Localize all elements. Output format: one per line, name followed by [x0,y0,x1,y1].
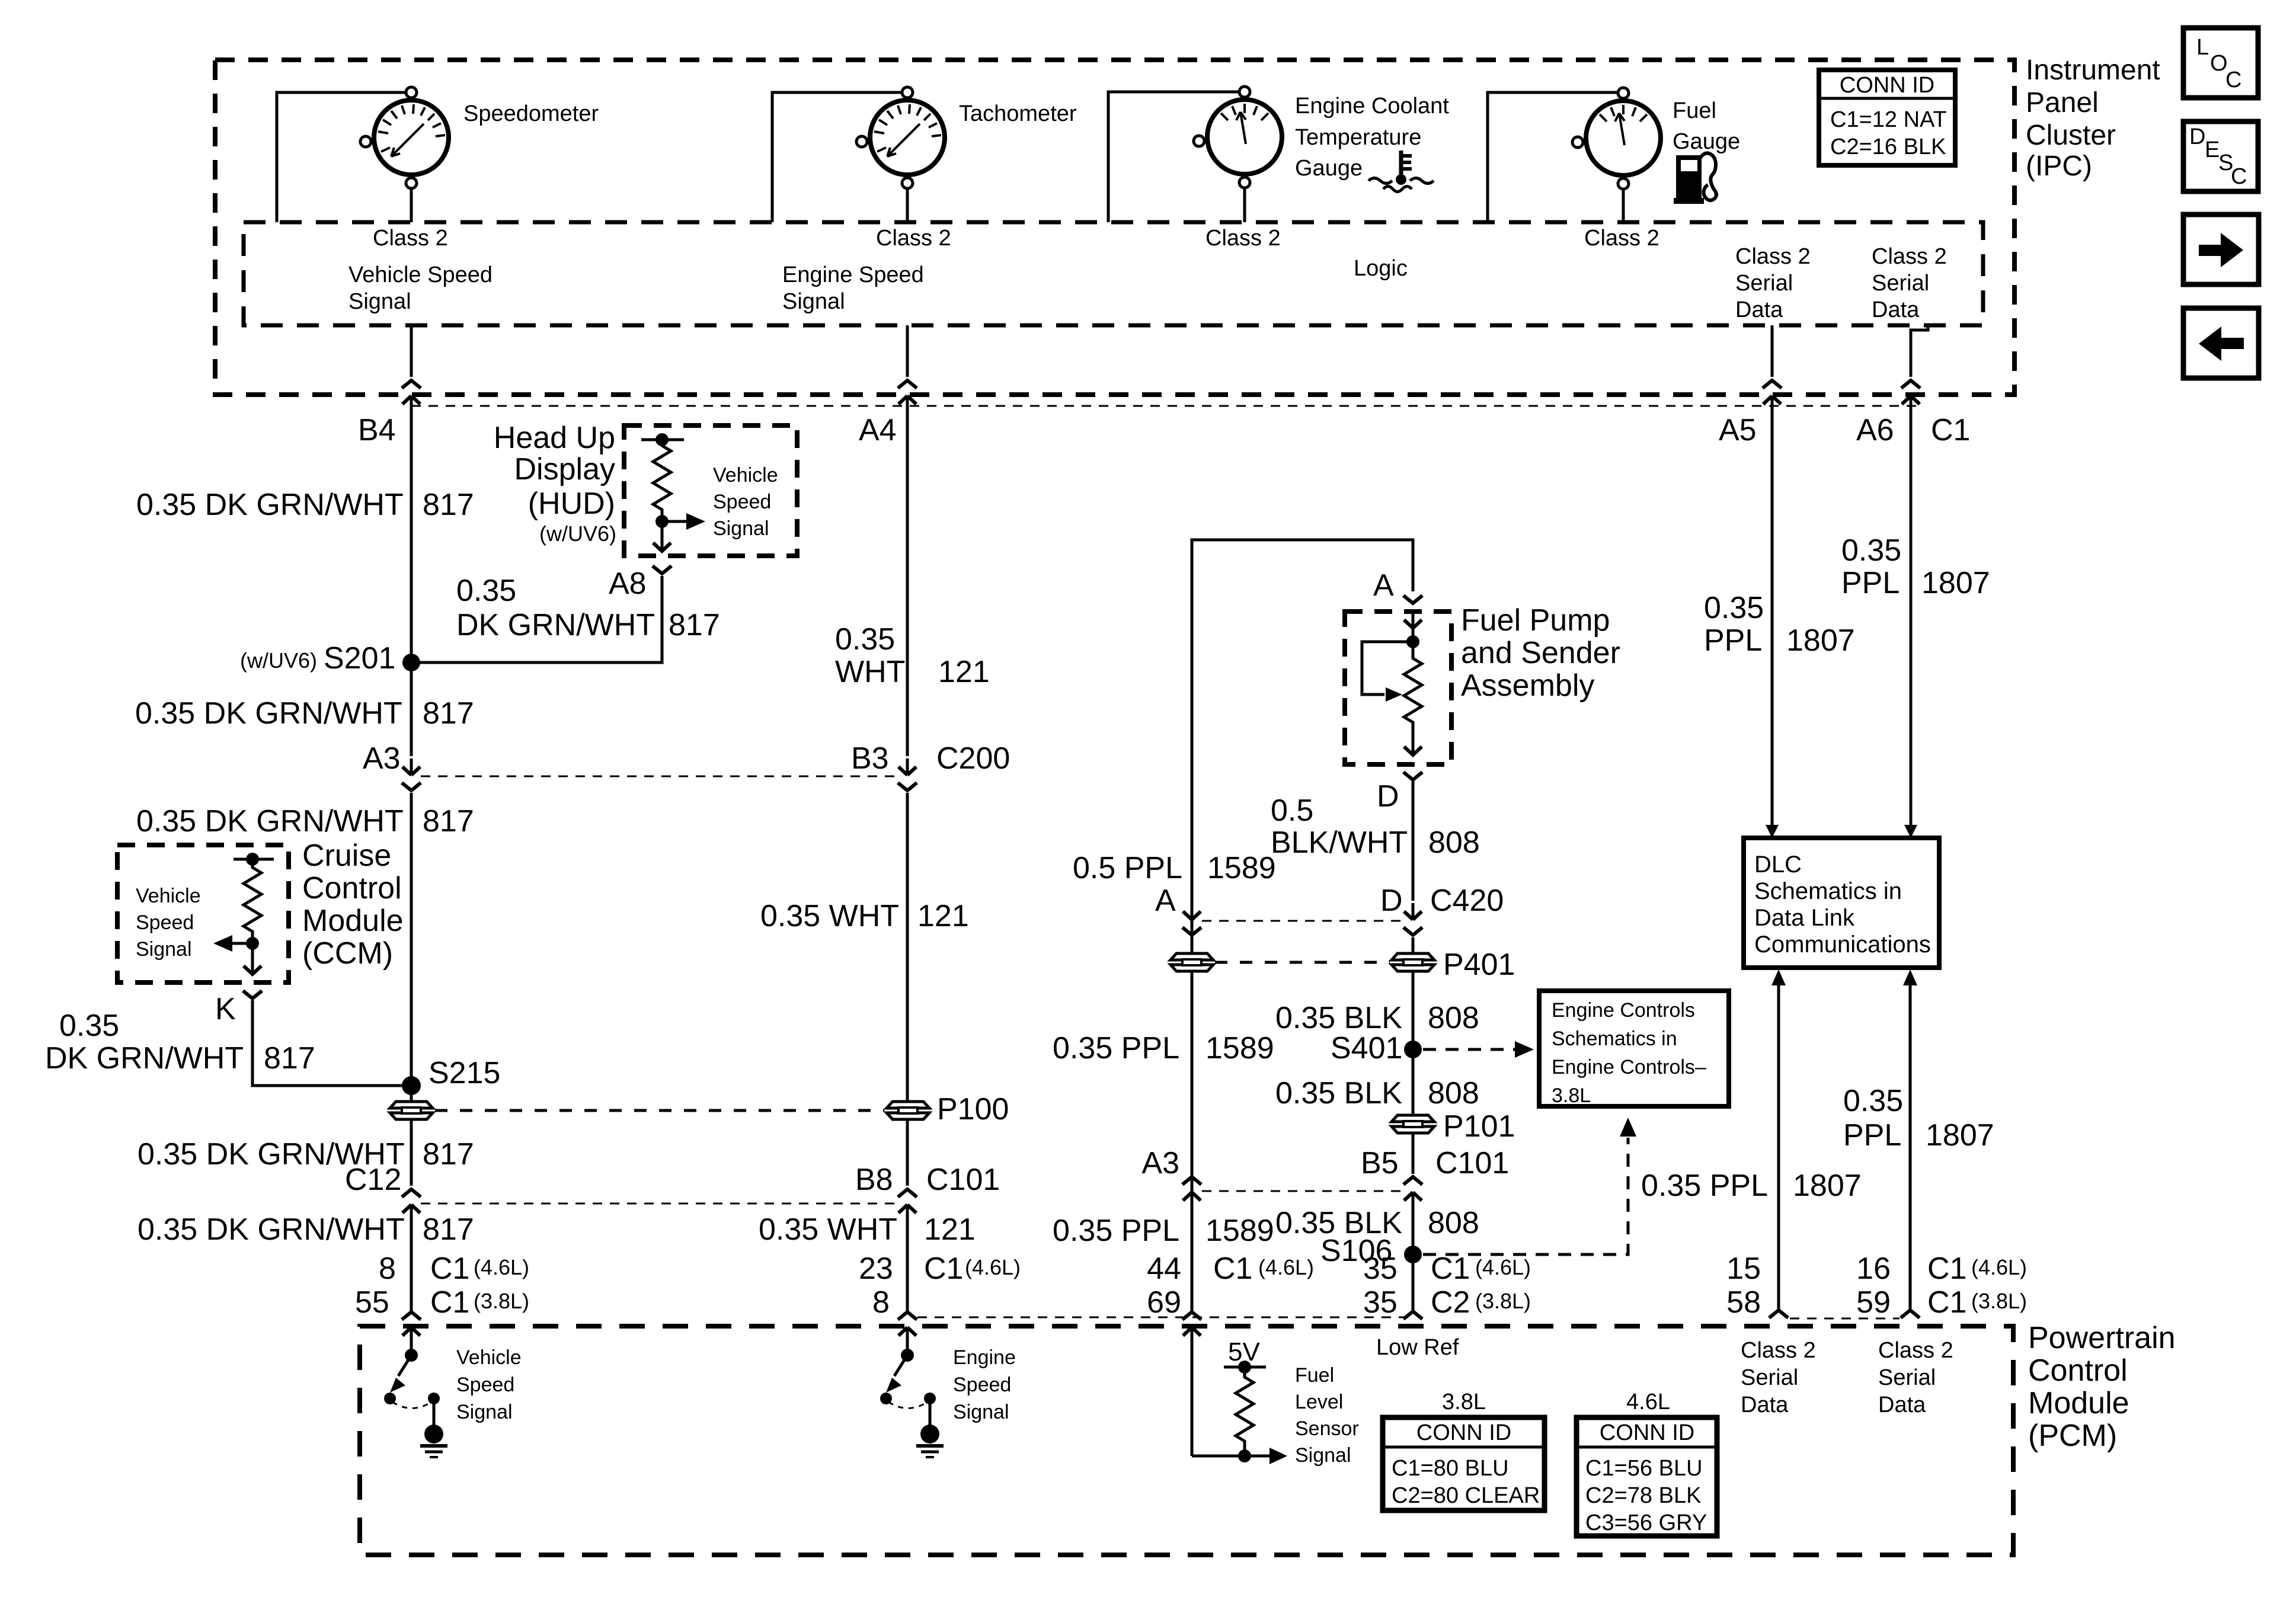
svg-text:Panel: Panel [2026,87,2099,119]
connector crossing D/C420 [1403,903,1422,935]
svg-text:Engine Speed: Engine Speed [782,263,924,287]
svg-text:44: 44 [1147,1251,1181,1286]
svg-text:B3: B3 [851,741,889,776]
wire label 0.5 PPL 1589 [1073,851,1276,885]
svg-text:1807: 1807 [1793,1169,1862,1203]
engine speed signal label (IPC) [782,263,924,314]
ground (engine speed switch) [916,1402,944,1457]
svg-text:Cruise: Cruise [302,838,391,873]
svg-text:(3.8L): (3.8L) [474,1289,529,1313]
svg-text:Signal: Signal [136,938,192,961]
svg-text:Low Ref: Low Ref [1376,1335,1459,1360]
connector crossing A3/C200 [402,758,421,790]
pin label K [215,992,236,1026]
svg-text:Signal: Signal [456,1401,513,1423]
svg-text:Speed: Speed [136,911,194,934]
connector C1 thin dashed line below IPC [411,405,1920,407]
svg-text:Module: Module [2028,1386,2129,1420]
wire 1589 from C101 to PCM [1191,1209,1194,1311]
svg-text:Signal: Signal [782,289,845,314]
HUD output arrow right [662,513,705,530]
svg-text:C3=56 GRY: C3=56 GRY [1585,1510,1707,1535]
wire from CCM pin K to S215 [252,1000,406,1086]
chevron at CCM pin K [243,991,262,998]
wire 808 from fuel pump to C420 [1412,781,1415,901]
HUD dashed box [624,425,797,556]
svg-text:A8: A8 [609,566,647,601]
svg-text:4.6L: 4.6L [1626,1390,1670,1414]
dashed arrow S401 to engine controls box [1423,1041,1534,1058]
splice S401 [1404,1041,1422,1058]
svg-text:817: 817 [264,1041,315,1076]
pin label A3 [363,741,401,776]
wire label 0.35 WHT 121 (bottom) [759,1212,976,1247]
HUD resistor [653,442,671,523]
svg-text:808: 808 [1428,1206,1479,1240]
connector C101 thin dashed line (left pair) [421,1203,898,1205]
svg-text:Engine Controls: Engine Controls [1552,999,1695,1022]
svg-text:Data: Data [1735,297,1783,322]
wire 121 from C200 to P100 [906,793,909,1102]
svg-text:16: 16 [1856,1251,1891,1286]
wire B4 from logic box to IPC edge [410,325,413,377]
svg-text:Speed: Speed [953,1374,1011,1396]
svg-text:Fuel: Fuel [1673,98,1716,123]
svg-text:Class 2: Class 2 [1878,1338,1953,1363]
svg-text:Engine: Engine [953,1346,1016,1369]
svg-text:Serial: Serial [1735,271,1793,296]
wire 121 from IPC to C200 [906,396,909,756]
wire from C420 to P401 (left) [1191,937,1194,953]
svg-text:23: 23 [859,1251,893,1286]
svg-text:D: D [1380,884,1403,918]
splice label S401 [1331,1031,1402,1065]
CONN ID box IPC [1819,70,1955,165]
svg-text:CONN ID: CONN ID [1416,1420,1511,1445]
HUD internal node dot bottom [655,515,669,528]
svg-text:8: 8 [872,1285,890,1320]
connector crossing A4 at IPC edge [898,380,917,412]
chevron at fuel pump pin A [1403,596,1422,603]
wire 817 from C200 to S215 [410,793,413,1102]
PCM connector thin dashed line (DLC pair) [1790,1318,1900,1320]
svg-text:Serial: Serial [1872,271,1929,296]
class 2 serial data label A5 [1735,244,1811,322]
svg-text:Signal: Signal [713,517,769,540]
wire coolant gauge bottom terminal to logic box [1243,187,1246,222]
svg-text:Vehicle Speed: Vehicle Speed [348,263,493,287]
CCM internal node dot top [246,853,259,866]
svg-text:C1: C1 [1927,1251,1966,1286]
wire tachometer bottom terminal to logic box [906,188,909,222]
svg-text:DK GRN/WHT: DK GRN/WHT [45,1041,244,1076]
svg-text:A3: A3 [1141,1146,1179,1180]
wire label 0.35 DK GRN/WHT 817 (HUD branch) [456,574,720,642]
wire 808 from C101 to S106 [1412,1209,1415,1311]
engine controls schematics box [1539,991,1729,1107]
svg-text:Vehicle: Vehicle [456,1346,522,1369]
pin labels B3 C200 [851,741,1010,776]
svg-text:C1=80 BLU: C1=80 BLU [1392,1456,1509,1481]
connector C101 thin dashed line (fuel pair) [1202,1190,1403,1192]
pin row 15 / 58 [1726,1251,1761,1320]
chevron at PCM (DLC right) [1901,1310,1920,1318]
svg-text:(PCM): (PCM) [2028,1419,2117,1453]
svg-text:(3.8L): (3.8L) [1475,1289,1531,1313]
svg-text:C200: C200 [936,741,1010,776]
fuel sender node dot [1406,635,1419,648]
IPC label [2026,55,2160,182]
engine coolant temperature gauge [1194,87,1282,188]
engine speed switch contacts [880,1393,936,1409]
logic label [1354,256,1408,281]
svg-text:Temperature: Temperature [1295,125,1421,150]
svg-text:0.35: 0.35 [456,574,516,608]
svg-text:DK GRN/WHT: DK GRN/WHT [456,608,655,642]
fuel level sensor resistor [1236,1367,1253,1457]
svg-text:Speed: Speed [456,1374,514,1396]
svg-text:D: D [1377,779,1399,814]
inline connector P100 (speedometer wire) [390,1102,433,1119]
svg-text:35: 35 [1363,1251,1398,1286]
svg-text:A4: A4 [859,413,897,447]
connector crossing A3/C101 [1182,1177,1201,1209]
svg-text:S215: S215 [428,1056,500,1090]
svg-text:K: K [215,992,236,1026]
CCM internal top bar [234,858,274,861]
fuel sender wiper arm [1362,642,1413,702]
connector crossing A5 at IPC edge [1763,380,1782,412]
wire fuel gauge bottom terminal to logic box [1622,188,1625,222]
CCM vehicle speed signal label [136,885,201,961]
wire speedometer bottom terminal to logic box [410,188,413,222]
svg-text:3.8L: 3.8L [1442,1390,1486,1414]
svg-text:PPL: PPL [1841,566,1900,600]
pin labels A3 B5 C101 [1141,1146,1509,1180]
svg-text:1589: 1589 [1205,1031,1274,1065]
svg-text:P101: P101 [1443,1109,1515,1144]
vehicle speed signal label (PCM) [456,1346,522,1423]
chevron at fuel pump pin D [1403,772,1422,780]
svg-text:Head Up: Head Up [494,421,615,455]
svg-text:L: L [2196,35,2209,60]
wire label 0.35 BLK 808 (above S401) [1275,1001,1479,1035]
ground (vehicle speed switch) [420,1402,447,1457]
wire top loop fuel sender [1192,540,1413,1311]
connector crossing at PCM (speedo) [402,1312,421,1344]
wire label 0.35 WHT 121 (middle) [760,899,969,933]
wire label 0.5 BLK/WHT 808 [1271,793,1480,860]
pin labels A6 C1 [1856,413,1970,447]
svg-text:Vehicle: Vehicle [713,464,778,486]
svg-text:C1: C1 [1931,413,1970,447]
chevron at PCM (low ref) [1403,1311,1422,1319]
svg-text:C101: C101 [926,1163,1000,1197]
svg-text:Engine Coolant: Engine Coolant [1295,94,1449,119]
svg-text:808: 808 [1428,825,1480,860]
pin row 35 C1 (4.6L) [1363,1251,1531,1286]
svg-text:Signal: Signal [348,289,411,314]
pin row 44 C1 (4.6L) [1147,1251,1314,1286]
CCM resistor [244,864,261,945]
engine speed switch input node [901,1327,914,1362]
svg-text:P401: P401 [1443,948,1515,982]
svg-text:C1: C1 [430,1285,469,1320]
wire from C420 to P401 (right) [1412,937,1415,953]
svg-text:817: 817 [669,608,720,642]
svg-text:(CCM): (CCM) [302,936,393,971]
svg-text:C1: C1 [430,1251,469,1286]
svg-text:A: A [1373,568,1394,603]
CCM internal arrow down to pin K [244,943,261,974]
wire label 0.35 PPL 1807 (A5) [1704,591,1855,658]
DESC box [2183,121,2258,191]
svg-text:0.35 DK GRN/WHT: 0.35 DK GRN/WHT [136,488,404,522]
svg-text:817: 817 [423,804,474,838]
wire label 0.35 PPL 1807 (DLC right) [1843,1084,1994,1153]
svg-text:0.35: 0.35 [1704,591,1764,625]
wire label 0.35 PPL 1589 (bottom) [1053,1214,1274,1248]
pin label C12 [345,1163,401,1197]
wire label 0.35 DK GRN/WHT 817 (above S201) [136,488,474,522]
wire label 0.35 BLK 808 (below S401) [1275,1076,1479,1110]
svg-text:S201: S201 [324,641,395,676]
svg-text:C420: C420 [1430,884,1504,918]
svg-text:Speedometer: Speedometer [463,101,599,126]
wire 808 from P401 to S401 [1412,972,1415,1115]
svg-text:0.35 DK GRN/WHT: 0.35 DK GRN/WHT [136,804,404,838]
5V label [1228,1337,1260,1366]
connector crossing B3/C200 [898,758,917,790]
fuel gauge label [1673,98,1740,154]
connector label P401 [1443,948,1515,982]
P100 dashed link line [435,1109,884,1112]
fuel gauge [1572,88,1661,189]
svg-text:(HUD): (HUD) [528,486,615,521]
engine speed switch arm [886,1355,907,1393]
4.6L label [1626,1390,1670,1414]
wire A6 elbow from logic box to IPC edge [1911,325,1928,377]
svg-text:C: C [2225,68,2241,92]
pin row 23 C1 (4.6L) [859,1251,1021,1286]
PCM label [2028,1321,2176,1453]
wire tachometer top terminal to IPC logic [772,92,903,222]
wire 817 from IPC to C200 [410,396,413,756]
svg-text:1807: 1807 [1926,1118,1994,1153]
svg-text:C2=78 BLK: C2=78 BLK [1585,1483,1701,1508]
svg-text:(4.6L): (4.6L) [1971,1255,2027,1279]
engine speed signal label (PCM) [953,1346,1016,1423]
svg-text:CONN ID: CONN ID [1600,1420,1694,1445]
wire label 0.35 DK GRN/WHT 817 (below C200) [136,804,474,838]
CONN ID box 4.6L [1576,1417,1717,1536]
dashed arrow S106 to engine controls box [1423,1118,1636,1254]
svg-text:Communications: Communications [1754,932,1931,958]
splice label S106 [1320,1234,1392,1268]
wire 121 from C101 to PCM [906,1221,909,1311]
svg-text:Gauge: Gauge [1673,129,1740,154]
svg-text:(w/UV6): (w/UV6) [539,521,616,546]
svg-text:Class 2: Class 2 [373,226,448,251]
svg-text:Data: Data [1741,1393,1789,1417]
connector crossing at PCM (tach) [898,1312,917,1344]
svg-text:121: 121 [924,1212,976,1247]
svg-text:1807: 1807 [1786,623,1855,658]
wire speedometer top terminal to IPC logic [277,92,407,222]
IPC inner logic dashed box [244,222,1983,325]
wire A4 from logic box to IPC edge [906,325,909,377]
svg-text:Speed: Speed [713,491,771,513]
pin labels A D C420 [1155,884,1504,918]
svg-text:0.35 WHT: 0.35 WHT [760,899,899,933]
wire 1807 from A5 to DLC box [1766,396,1779,838]
connector C420 thin dashed line [1202,920,1403,922]
speedometer label [463,101,599,126]
pin row 8 [872,1285,890,1320]
svg-text:Schematics in: Schematics in [1754,878,1902,904]
svg-text:0.35: 0.35 [59,1009,119,1043]
svg-text:Signal: Signal [953,1401,1009,1423]
tachometer label [959,101,1077,126]
svg-text:Class 2: Class 2 [1205,226,1281,251]
svg-text:Control: Control [302,871,402,905]
inline connector P100 (tachometer wire) [887,1102,929,1119]
wire 1807 DLC to PCM (right) [1903,969,1917,1311]
fuel pump and sender dashed box [1345,612,1451,764]
wire label 0.35 DK GRN/WHT 817 (bottom) [137,1212,474,1247]
inline connector P101 [1392,1115,1434,1133]
svg-text:A: A [1155,884,1176,918]
svg-text:0.35: 0.35 [1841,533,1901,568]
svg-text:Tachometer: Tachometer [959,101,1077,126]
pin row 55 C1 (3.8L) [355,1285,529,1320]
svg-text:S401: S401 [1331,1031,1402,1065]
coolant temperature icon [1368,151,1434,192]
pin row 35 C2 (3.8L) [1363,1285,1531,1320]
svg-text:8: 8 [379,1251,396,1286]
svg-text:Control: Control [2028,1353,2128,1388]
svg-text:C101: C101 [1435,1146,1509,1180]
pin row 16 / 59 [1856,1251,1891,1320]
svg-text:Instrument: Instrument [2026,55,2160,86]
svg-text:Fuel Pump: Fuel Pump [1461,603,1610,638]
pin row 8 C1 (4.6L) [379,1251,529,1286]
svg-text:0.35 BLK: 0.35 BLK [1275,1001,1402,1035]
wire 1589 from P401 to C101 [1191,972,1194,1174]
svg-text:B5: B5 [1361,1146,1399,1180]
svg-text:Class 2: Class 2 [1872,244,1947,269]
svg-text:B4: B4 [358,413,396,447]
svg-text:Vehicle: Vehicle [136,885,201,907]
svg-text:Engine Controls–: Engine Controls– [1552,1056,1706,1078]
svg-text:Data: Data [1872,297,1920,322]
wire 1807 DLC to PCM (left) [1771,969,1786,1311]
svg-text:C2=80 CLEAR: C2=80 CLEAR [1392,1483,1540,1508]
svg-text:A5: A5 [1719,413,1757,447]
svg-text:3.8L: 3.8L [1552,1084,1591,1107]
svg-text:WHT: WHT [835,655,905,689]
wire from S201 to HUD pin A8 [411,576,662,662]
fuel level sensor signal label [1295,1364,1359,1467]
svg-text:PPL: PPL [1704,623,1762,658]
svg-text:A6: A6 [1856,413,1894,447]
HUD internal arrow down to pin A8 [653,521,671,551]
svg-text:Class 2: Class 2 [876,226,951,251]
svg-text:Assembly: Assembly [1461,668,1594,703]
svg-text:DLC: DLC [1754,852,1802,878]
svg-text:(3.8L): (3.8L) [1971,1289,2027,1313]
svg-text:A3: A3 [363,741,401,776]
svg-text:15: 15 [1726,1251,1761,1286]
svg-text:C1: C1 [924,1251,963,1286]
svg-text:0.5: 0.5 [1271,793,1313,828]
svg-text:Sensor: Sensor [1295,1417,1359,1440]
fuel pump icon [1674,153,1716,204]
svg-text:Class 2: Class 2 [1584,226,1659,251]
connector crossing C12/C101 [402,1189,421,1221]
connector crossing A6 at IPC edge [1901,380,1920,412]
wire A5 from logic box to IPC edge [1771,325,1774,377]
svg-text:58: 58 [1726,1285,1761,1320]
svg-text:0.35 WHT: 0.35 WHT [759,1212,897,1247]
svg-text:C1: C1 [1431,1251,1470,1286]
wire label 0.35 PPL 1807 (DLC left) [1641,1169,1862,1203]
svg-text:69: 69 [1147,1285,1181,1320]
coolant gauge label [1295,94,1449,181]
svg-text:C1=12 NAT: C1=12 NAT [1830,107,1947,132]
wire 808 from P101 to C101 [1412,1134,1415,1174]
svg-text:808: 808 [1428,1076,1479,1110]
svg-text:Serial: Serial [1741,1365,1798,1390]
svg-text:BLK/WHT: BLK/WHT [1271,825,1408,860]
connector crossing A/C420 [1182,903,1201,935]
svg-text:P100: P100 [937,1092,1009,1126]
speedometer gauge [360,87,449,188]
svg-text:Schematics in: Schematics in [1552,1028,1677,1050]
vehicle speed signal label (IPC) [348,263,493,314]
PCM connector thin dashed line (middle) [917,1317,1413,1318]
svg-text:(4.6L): (4.6L) [474,1255,529,1279]
svg-text:1807: 1807 [1921,566,1990,600]
pin row C1 (4.6L) / C1 (3.8L) [1927,1251,2027,1320]
pin label A5 [1719,413,1757,447]
svg-text:B8: B8 [855,1163,893,1197]
pin labels B8 C101 [855,1163,1000,1197]
connector label P101 [1443,1109,1515,1144]
svg-text:121: 121 [917,899,969,933]
svg-text:1589: 1589 [1207,851,1276,885]
wire label 0.35 PPL 1807 (A6) [1841,533,1990,600]
wire 1807 from A6 to DLC box [1904,396,1917,838]
svg-text:817: 817 [423,696,474,731]
svg-text:Data Link: Data Link [1754,905,1855,931]
wire label 0.35 WHT 121 (upper) [835,622,990,689]
svg-text:(4.6L): (4.6L) [965,1255,1021,1279]
DLC schematics box [1744,838,1939,968]
fuel level sensor signal node [1192,1448,1287,1464]
svg-text:CONN ID: CONN ID [1840,73,1934,98]
fuel pump internal arrow in from pin A [1404,612,1422,642]
connector crossing B5/C101 [1403,1177,1422,1209]
fuel pump internal arrow down to pin D [1404,726,1422,755]
tachometer gauge [856,87,945,188]
CCM internal node dot bottom [246,937,259,950]
svg-text:0.35 DK GRN/WHT: 0.35 DK GRN/WHT [135,696,402,731]
splice S106 [1404,1246,1422,1263]
svg-text:Gauge: Gauge [1295,156,1363,181]
pin label A4 [859,413,897,447]
splice label S215 [428,1056,500,1090]
